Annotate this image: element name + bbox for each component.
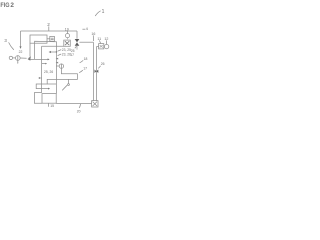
svg-text:2: 2 [10, 2, 14, 9]
wire from control unit down [29, 43, 31, 56]
node junction [56, 51, 58, 53]
wire bottom pipe [56, 102, 91, 104]
solenoid actuator [67, 31, 69, 34]
level sensor stub [56, 65, 59, 67]
svg-text:23, 25: 23, 25 [62, 48, 71, 52]
wire return line [42, 45, 64, 47]
valve X [75, 39, 80, 42]
wire right line B [97, 47, 99, 101]
svg-text:25, 26: 25, 26 [44, 70, 53, 74]
svg-text:3: 3 [4, 38, 7, 43]
pump circle 12 [104, 44, 108, 48]
wire drop to pump unit [20, 31, 22, 47]
control unit box [30, 35, 47, 43]
valve 19 box [64, 40, 71, 46]
svg-text:11: 11 [97, 37, 101, 41]
sensor box 11 [99, 44, 104, 49]
svg-text:4: 4 [86, 26, 89, 31]
svg-text:18: 18 [84, 57, 88, 61]
svg-text:2: 2 [47, 22, 50, 27]
arrow small flow right [42, 63, 46, 65]
wire wrap path [34, 93, 42, 104]
suction stub 15 [48, 103, 50, 106]
label 20 [79, 104, 80, 108]
valve outlet stub [76, 46, 78, 50]
inlet port circle [9, 56, 12, 59]
junction ticks [56, 58, 59, 60]
level sensor circle [59, 64, 63, 68]
svg-text:1: 1 [102, 9, 105, 15]
wire step segment [68, 79, 70, 83]
tank box [42, 94, 56, 104]
wire valve to right [79, 41, 93, 43]
wire right line A [92, 42, 94, 100]
labels 23 25 [58, 50, 62, 52]
label 4 [82, 28, 85, 30]
svg-text:17: 17 [83, 67, 87, 71]
svg-text:26: 26 [101, 62, 105, 66]
wire inlet [13, 57, 16, 59]
drain stub [17, 60, 19, 63]
label 5 [62, 85, 67, 90]
wire bridge line [35, 41, 57, 93]
labels 25 17 at valve [75, 46, 77, 48]
arrow small flow left [39, 77, 41, 79]
wire tank top segment [47, 83, 56, 85]
svg-text:20: 20 [77, 109, 81, 113]
svg-text:23, 26: 23, 26 [62, 52, 71, 56]
wire arrow to junction [50, 51, 56, 53]
wire box to pump [103, 46, 106, 48]
svg-text:19: 19 [65, 27, 69, 31]
connector stub [47, 38, 50, 40]
svg-text:FIG: FIG [0, 2, 9, 9]
connector box [50, 36, 55, 41]
wire top pipe corner down [76, 31, 78, 39]
valve 26 bowtie [95, 70, 97, 74]
wire pump outlet [20, 57, 26, 59]
svg-text:22: 22 [19, 50, 23, 54]
pump circle [15, 56, 20, 61]
bottom right valve box [92, 101, 98, 107]
wire serpentine suction pipe [36, 68, 77, 88]
svg-text:15: 15 [50, 104, 54, 108]
wire top supply pipe [21, 30, 78, 32]
wire arrow line into pump [29, 58, 48, 60]
